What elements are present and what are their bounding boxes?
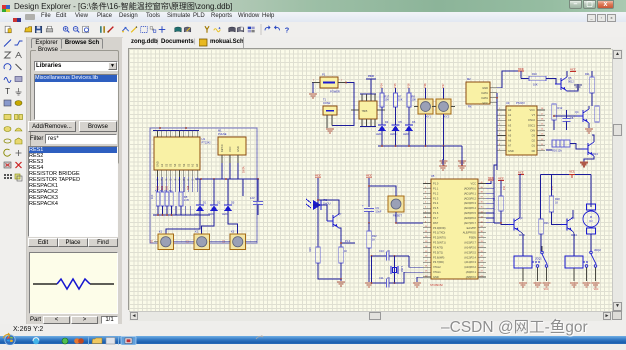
wire MCU to Q3 xyxy=(494,222,501,224)
module box keypad xyxy=(150,128,257,243)
svg-text:A6: A6 xyxy=(508,139,512,143)
svg-text:VCC: VCC xyxy=(569,170,575,174)
resistor R8 xyxy=(408,88,410,93)
svg-text:RX: RX xyxy=(468,105,472,109)
ground Q4 emitter xyxy=(588,123,590,128)
svg-text:KY2: KY2 xyxy=(444,115,450,119)
svg-text:P1.0: P1.0 xyxy=(345,240,351,243)
svg-text:JDQ1: JDQ1 xyxy=(535,257,542,261)
title bar xyxy=(0,0,626,13)
svg-text:VCC: VCC xyxy=(228,146,232,152)
svg-text:P3.0(RXD): P3.0(RXD) xyxy=(433,226,446,230)
IC U5 MCU xyxy=(431,179,478,279)
resistor R13 xyxy=(595,106,600,122)
svg-text:(AD6)P0.6: (AD6)P0.6 xyxy=(464,216,477,220)
green icon xyxy=(62,338,68,344)
svg-text:R21: R21 xyxy=(544,221,549,225)
svg-text:M1: M1 xyxy=(218,129,222,133)
svg-text:1: 1 xyxy=(341,80,343,82)
transistor Q4 motor xyxy=(561,218,573,232)
svg-text:14: 14 xyxy=(191,180,194,182)
wire P0 bus xyxy=(493,188,495,223)
svg-text:9: 9 xyxy=(196,180,198,182)
h scrollbar xyxy=(129,311,612,321)
svg-text:9013: 9013 xyxy=(592,152,598,156)
svg-text:1K: 1K xyxy=(555,201,558,205)
wire top rail motor xyxy=(541,174,592,176)
IR receiver diode xyxy=(313,200,321,210)
resistor R19 xyxy=(317,205,319,247)
button K1 xyxy=(158,234,174,250)
svg-text:A1: A1 xyxy=(508,113,512,117)
svg-text:9012: 9012 xyxy=(568,80,574,84)
v scrollbar xyxy=(612,49,623,312)
svg-text:P3.1(TXD): P3.1(TXD) xyxy=(433,231,445,235)
svg-text:11: 11 xyxy=(161,180,164,182)
svg-text:EA/VPP: EA/VPP xyxy=(467,226,477,230)
svg-text:DIN: DIN xyxy=(531,128,536,132)
wire Q5 collector VCC xyxy=(566,71,568,77)
svg-text:U1: U1 xyxy=(202,137,206,141)
wire rail down left xyxy=(152,214,154,216)
taskbar body drawn by #taskbar div; icons here xyxy=(5,335,136,345)
svg-text:PT2242: PT2242 xyxy=(202,141,212,145)
svg-text:10K: 10K xyxy=(412,98,417,102)
svg-text:P1.1: P1.1 xyxy=(433,186,439,190)
svg-text:(A11)P2.3: (A11)P2.3 xyxy=(465,260,477,264)
svg-text:10uF: 10uF xyxy=(376,210,382,214)
svg-text:12: 12 xyxy=(165,180,168,182)
diode D4 LED xyxy=(381,107,383,125)
resistor R12 xyxy=(552,104,557,120)
wire R9 to Q3 base xyxy=(501,211,508,225)
wire Q4b emitter to relay2 xyxy=(573,232,574,257)
svg-text:D5: D5 xyxy=(399,120,403,124)
svg-text:R18: R18 xyxy=(555,197,560,201)
IE icon xyxy=(33,338,39,344)
svg-text:KY1: KY1 xyxy=(426,115,432,119)
transistor Q7 xyxy=(327,214,339,228)
svg-text:P15: P15 xyxy=(393,83,397,88)
resistor R10 xyxy=(520,71,522,79)
ground at CON2 xyxy=(326,129,334,133)
svg-text:10K: 10K xyxy=(151,194,154,199)
svg-text:XTAL2: XTAL2 xyxy=(433,265,441,269)
svg-text:D22: D22 xyxy=(162,185,164,190)
libraries combo xyxy=(34,61,118,71)
svg-text:GND: GND xyxy=(156,161,160,167)
svg-text:10K: 10K xyxy=(398,98,403,102)
resistor R11 xyxy=(591,71,593,77)
svg-text:DATA: DATA xyxy=(481,96,488,100)
svg-text:D2: D2 xyxy=(532,139,536,143)
connector P1 POWER xyxy=(320,77,338,88)
resistor R3 xyxy=(165,192,169,206)
ground mid 2 xyxy=(461,146,463,160)
svg-text:R16 12k: R16 12k xyxy=(552,149,562,153)
ground at P1 xyxy=(312,83,314,94)
svg-text:C9: C9 xyxy=(376,206,380,210)
resistor R20 xyxy=(340,228,342,247)
connector T1 CON2 xyxy=(323,106,337,115)
preview xyxy=(29,252,118,314)
svg-text:(A14)P2.6: (A14)P2.6 xyxy=(464,245,476,249)
pin U2 right xyxy=(377,109,385,111)
resistor R7 xyxy=(395,88,397,93)
gray window xyxy=(106,338,115,345)
svg-text:P1: P1 xyxy=(322,73,326,77)
orange icon xyxy=(74,338,80,344)
svg-text:(AD7)P0.7: (AD7)P0.7 xyxy=(464,221,477,225)
svg-text:R12: R12 xyxy=(558,106,563,110)
watermark small arrows xyxy=(2,327,12,345)
svg-text:DATA: DATA xyxy=(481,91,488,95)
wire IR xyxy=(317,199,319,205)
svg-text:VCC: VCC xyxy=(366,174,373,178)
IC U1 xyxy=(154,137,200,170)
svg-text:P16: P16 xyxy=(407,83,411,88)
svg-text:P14: P14 xyxy=(380,83,384,88)
wire M2 data to bus xyxy=(496,93,498,170)
svg-text:R11: R11 xyxy=(585,72,590,76)
svg-text:VCC: VCC xyxy=(570,68,576,72)
svg-text:D3: D3 xyxy=(532,134,536,138)
svg-text:VCC: VCC xyxy=(471,182,477,186)
edit place find xyxy=(28,238,58,247)
svg-text:XTAL1: XTAL1 xyxy=(433,270,441,274)
svg-text:Q7: Q7 xyxy=(338,212,342,216)
svg-text:D1: D1 xyxy=(203,201,207,205)
svg-text:GND: GND xyxy=(482,86,488,90)
regulator U2 xyxy=(360,93,376,95)
wires button row xyxy=(174,241,195,243)
svg-text:P1.3: P1.3 xyxy=(433,196,439,200)
button K2 xyxy=(194,234,210,250)
svg-text:(AD0)P0.0: (AD0)P0.0 xyxy=(464,186,477,190)
wire reset top xyxy=(369,186,396,196)
svg-text:LED5: LED5 xyxy=(390,132,397,136)
svg-text:10K: 10K xyxy=(533,83,538,87)
pins M1 bottom xyxy=(221,155,223,163)
svg-text:A0: A0 xyxy=(508,108,512,112)
svg-text:M2: M2 xyxy=(467,77,471,81)
watermark xyxy=(441,315,588,337)
wire Q4b collector xyxy=(572,210,574,218)
component list xyxy=(28,146,118,237)
svg-text:S2: S2 xyxy=(186,163,190,167)
svg-text:D3: D3 xyxy=(231,201,235,205)
svg-text:P1.2: P1.2 xyxy=(433,191,439,195)
svg-text:VCC: VCC xyxy=(544,289,549,291)
wire Q3 emitter to relay xyxy=(520,232,523,257)
junction dot top left xyxy=(159,127,161,129)
diode D5 LED xyxy=(395,107,397,125)
svg-text:T: T xyxy=(5,87,10,96)
svg-text:(AD2)P0.2: (AD2)P0.2 xyxy=(464,196,477,200)
library list xyxy=(34,74,118,120)
svg-text:(AD1)P0.1: (AD1)P0.1 xyxy=(464,191,477,195)
svg-text:GND: GND xyxy=(236,146,240,152)
relay contact line 1 xyxy=(532,261,540,263)
active app button xyxy=(121,337,136,346)
svg-text:VCC: VCC xyxy=(518,171,524,175)
svg-text:P1.5: P1.5 xyxy=(433,206,439,210)
folder xyxy=(92,338,102,344)
button KY1 xyxy=(425,88,427,99)
schematic sheet xyxy=(129,49,612,311)
svg-text:GND: GND xyxy=(433,275,439,279)
svg-text:GND: GND xyxy=(508,149,514,153)
svg-text:13: 13 xyxy=(169,180,172,182)
svg-text:A5: A5 xyxy=(508,134,512,138)
wire R16 to Q6 xyxy=(570,144,582,150)
resistor R16 xyxy=(546,149,552,151)
resistor R21 xyxy=(539,219,544,234)
svg-text:R22: R22 xyxy=(372,234,377,238)
svg-text:(A15)P2.7: (A15)P2.7 xyxy=(464,241,476,245)
svg-text:P1.4: P1.4 xyxy=(433,201,439,205)
diode D6 LED xyxy=(408,107,410,125)
wire M2 data2 xyxy=(497,71,518,88)
svg-text:A1: A1 xyxy=(160,163,164,167)
status bar xyxy=(0,324,626,336)
filter xyxy=(30,136,43,142)
svg-text:D6: D6 xyxy=(412,120,416,124)
ground IR xyxy=(340,279,342,281)
svg-text:10: 10 xyxy=(156,180,159,182)
power VCC MCU xyxy=(486,181,491,184)
svg-text:1K: 1K xyxy=(372,238,375,242)
ground top 1 xyxy=(442,159,444,165)
ground reset xyxy=(365,283,373,287)
start orb and taskbar icons xyxy=(0,332,626,344)
pin P1 left xyxy=(312,82,320,84)
svg-text:12V: 12V xyxy=(250,196,255,200)
svg-text:+: + xyxy=(362,204,364,208)
diode D3 LED xyxy=(227,179,229,205)
svg-text:D2: D2 xyxy=(217,201,221,205)
svg-text:1.8M: 1.8M xyxy=(400,266,403,272)
wire M1 to bus xyxy=(221,163,223,179)
svg-text:OSC2: OSC2 xyxy=(528,118,536,122)
capacitor C9 10uF xyxy=(364,208,374,210)
svg-text:Q3: Q3 xyxy=(519,216,523,220)
svg-text:M: M xyxy=(590,215,592,219)
svg-text:P3.2(INT0): P3.2(INT0) xyxy=(433,236,446,240)
svg-text:C11: C11 xyxy=(379,276,384,280)
left panel xyxy=(27,37,122,324)
menu bar xyxy=(0,12,626,23)
resistor R5 xyxy=(179,192,183,206)
switch SW2 xyxy=(590,251,593,254)
svg-text:P1.6: P1.6 xyxy=(433,211,439,215)
svg-text:VCC: VCC xyxy=(594,289,599,291)
svg-text:ALE/PROG: ALE/PROG xyxy=(463,231,476,235)
wire Q3 collector xyxy=(520,175,521,218)
wire relay2 ground xyxy=(573,268,575,281)
svg-text:A3: A3 xyxy=(508,123,512,127)
svg-text:(AD3)P0.3: (AD3)P0.3 xyxy=(464,201,477,205)
diode D1 LED xyxy=(199,179,201,205)
svg-text:S4: S4 xyxy=(173,163,177,167)
wires resistors to rail xyxy=(157,206,159,215)
svg-text:R9: R9 xyxy=(493,197,496,201)
svg-text:16: 16 xyxy=(183,180,186,182)
svg-text:VCC: VCC xyxy=(488,176,494,180)
left tool column xyxy=(0,37,27,324)
svg-text:Q4: Q4 xyxy=(575,110,579,114)
taskbar xyxy=(0,336,626,344)
svg-text:Q5: Q5 xyxy=(568,76,572,80)
svg-text:VCC: VCC xyxy=(530,108,536,112)
relay JDQ2 coil xyxy=(565,256,583,268)
svg-text:VT: VT xyxy=(532,113,536,117)
svg-text:U3: U3 xyxy=(506,101,510,105)
transistor Q4 xyxy=(577,109,589,123)
ground top right xyxy=(584,159,594,161)
svg-text:D1: D1 xyxy=(532,144,536,148)
transistor Q3 xyxy=(508,218,520,232)
svg-text:C8: C8 xyxy=(570,116,574,120)
capacitor C8 xyxy=(566,110,568,118)
IC M1 PULSE xyxy=(218,137,246,155)
add/remove + browse xyxy=(28,121,76,132)
svg-text:17: 17 xyxy=(178,180,181,182)
svg-text:A7: A7 xyxy=(508,144,512,148)
svg-text:P10: P10 xyxy=(504,185,506,190)
svg-text:STC89C52: STC89C52 xyxy=(430,283,443,287)
svg-text:P11: P11 xyxy=(552,185,554,190)
svg-text:P3.5(T1): P3.5(T1) xyxy=(433,250,443,254)
svg-text:B1: B1 xyxy=(151,239,154,243)
svg-text:P3.6(WR): P3.6(WR) xyxy=(433,255,445,259)
svg-text:A4: A4 xyxy=(508,128,512,132)
wire Q7 base xyxy=(326,220,328,222)
svg-text:R10: R10 xyxy=(532,72,537,76)
resistor R9 xyxy=(500,181,502,197)
svg-text:CON2: CON2 xyxy=(323,101,331,105)
pin U2 left xyxy=(351,109,359,111)
part row xyxy=(30,317,41,323)
svg-text:K2: K2 xyxy=(195,230,199,234)
svg-text:S3: S3 xyxy=(169,163,173,167)
resistor R22 xyxy=(368,223,370,231)
svg-text:VCC: VCC xyxy=(368,74,375,78)
svg-text:D15: D15 xyxy=(158,185,160,190)
button KY2 xyxy=(443,88,445,99)
wire relay1 to ground xyxy=(522,268,524,281)
wire bus up to U3 xyxy=(496,156,498,170)
svg-text:(AD5)P0.5: (AD5)P0.5 xyxy=(464,211,477,215)
svg-text:7805: 7805 xyxy=(362,109,368,113)
svg-text:PULSE: PULSE xyxy=(218,132,227,136)
svg-text:10K: 10K xyxy=(385,98,390,102)
button RESET xyxy=(388,196,404,212)
svg-text:RESET: RESET xyxy=(393,214,402,218)
svg-text:A0: A0 xyxy=(195,163,199,167)
svg-text:PSEN: PSEN xyxy=(469,236,476,240)
svg-text:VCC: VCC xyxy=(315,174,322,178)
toolbar xyxy=(0,22,626,38)
pin P1 right xyxy=(338,82,346,84)
svg-text:(A13)P2.5: (A13)P2.5 xyxy=(464,250,476,254)
wire Q6 collector xyxy=(592,135,594,142)
svg-text:T1: T1 xyxy=(323,98,327,102)
wire xtal2 xyxy=(395,272,424,283)
svg-text:POWER: POWER xyxy=(330,90,340,94)
svg-text:A1: A1 xyxy=(191,163,195,167)
svg-text:TE: TE xyxy=(174,180,177,182)
wire vertical left xyxy=(371,256,373,283)
ground MCU GND pin xyxy=(417,277,423,282)
relay contact line 2 xyxy=(583,261,588,263)
svg-text:VCC: VCC xyxy=(518,67,524,71)
button K3 xyxy=(230,234,246,250)
wire Q6 emitter to ground xyxy=(584,156,594,162)
svg-text:(A8)P2.0: (A8)P2.0 xyxy=(466,275,477,279)
svg-text:PT2272: PT2272 xyxy=(516,102,525,105)
crystal Y1 xyxy=(394,256,396,283)
wire top bus xyxy=(153,130,199,132)
svg-text:R15: R15 xyxy=(188,185,190,190)
svg-text:D0: D0 xyxy=(532,149,536,153)
svg-text:P3.4(T0): P3.4(T0) xyxy=(433,245,443,249)
svg-text:?: ? xyxy=(285,25,290,34)
svg-text:KEY.D: KEY.D xyxy=(220,144,224,152)
svg-text:(A10)P2.2: (A10)P2.2 xyxy=(464,265,476,269)
svg-text:P3.3(INT1): P3.3(INT1) xyxy=(433,241,446,245)
resistor R4 xyxy=(170,192,174,206)
svg-text:JDQ2: JDQ2 xyxy=(594,248,601,252)
wire reset bottom to RST xyxy=(396,212,423,223)
ground Q5 emitter xyxy=(567,84,578,91)
resistor R17 xyxy=(381,88,383,93)
svg-text:B2: B2 xyxy=(187,239,190,243)
motor M xyxy=(587,204,596,210)
wire U1 bottom bus xyxy=(157,177,159,192)
resistor R2 xyxy=(161,192,165,206)
svg-text:U5: U5 xyxy=(431,174,435,178)
svg-text:DATA: DATA xyxy=(242,166,246,173)
switch SW1 xyxy=(541,251,544,254)
svg-text:(AD4)P0.4: (AD4)P0.4 xyxy=(464,206,477,210)
wire R10 to Q5 xyxy=(546,79,560,85)
svg-text:K1: K1 xyxy=(159,230,163,234)
transistor Q5 xyxy=(555,77,567,91)
relay JDQ1 coil xyxy=(514,256,532,268)
svg-text:(A9)P2.1: (A9)P2.1 xyxy=(466,270,477,274)
svg-text:4.7K: 4.7K xyxy=(184,198,190,202)
wire Q7 collector to VCC xyxy=(318,200,339,214)
ground top 2 xyxy=(461,159,463,165)
ground mid 1 xyxy=(443,146,445,160)
resistor R1 xyxy=(156,192,160,206)
diode D2 LED xyxy=(213,179,215,205)
module M2 receiver xyxy=(466,82,490,104)
svg-text:K3: K3 xyxy=(231,230,235,234)
wire Q7 emitter P1.0 xyxy=(339,228,341,243)
svg-text:R19: R19 xyxy=(309,247,312,252)
wire xtal1 xyxy=(409,256,423,267)
svg-text:1K: 1K xyxy=(344,249,347,253)
grounds above MCU xyxy=(443,160,445,162)
svg-text:P1.0: P1.0 xyxy=(433,182,439,186)
IC U3 decoder xyxy=(506,106,537,155)
svg-text:S5: S5 xyxy=(178,163,182,167)
wire P1 to CON2 xyxy=(332,83,354,126)
svg-text:2: 2 xyxy=(313,80,315,82)
svg-text:B3: B3 xyxy=(223,239,226,243)
